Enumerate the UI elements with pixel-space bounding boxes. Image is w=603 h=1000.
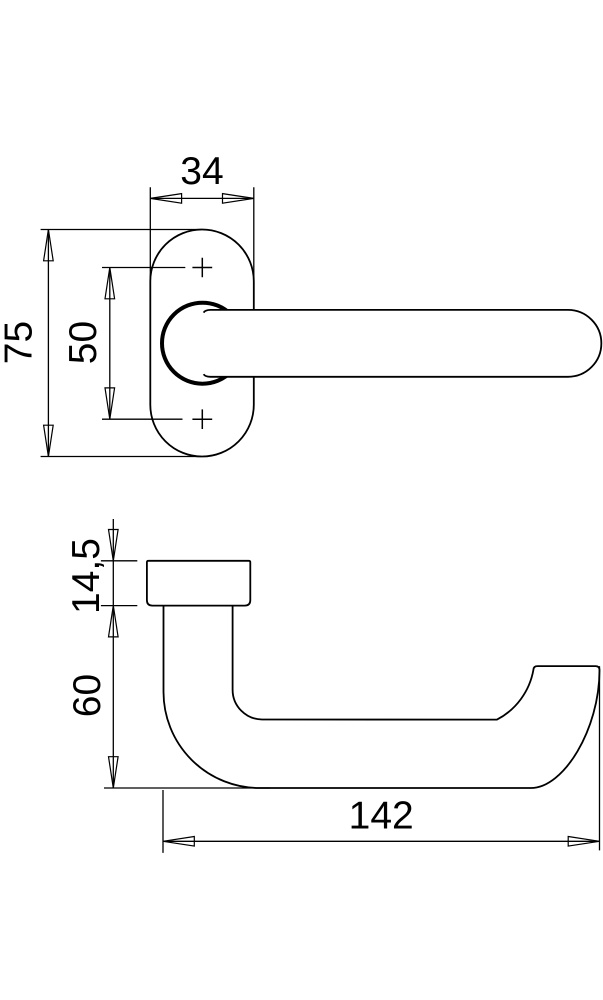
dimension text 142 (349, 794, 414, 837)
dimension line 142 (163, 840, 600, 842)
dimension text 60 (rotated) (66, 674, 109, 717)
dimension text 75 (rotated) (0, 321, 41, 364)
extension lines for dimension 142 (163, 666, 600, 853)
arrowhead 60 bottom (pointing down) (109, 757, 119, 788)
screw hole cross mark bottom (192, 409, 212, 429)
arrowhead 50 top (105, 268, 115, 299)
extension lines for dimension 75 (41, 230, 201, 457)
arrowhead 34 right (223, 194, 254, 204)
screw hole cross mark top (192, 258, 212, 278)
arrowhead 50 bottom (105, 388, 115, 419)
svg-text:75: 75 (0, 321, 41, 364)
svg-text:60: 60 (66, 674, 109, 717)
svg-text:50: 50 (62, 321, 105, 364)
dimension line 14,5 / 60 (shared vertical) (112, 519, 114, 788)
svg-text:34: 34 (180, 150, 223, 193)
dimension line 75 (47, 230, 49, 457)
dimension text 50 (rotated) (62, 321, 105, 364)
dimension line 50 (109, 268, 111, 420)
extension line for dimension 60 bottom (104, 787, 270, 789)
extension lines for dimension 34 (150, 187, 254, 285)
neck collar circle (162, 303, 243, 384)
svg-text:14,5: 14,5 (65, 538, 108, 614)
extension lines for dimension 14,5 (101, 561, 137, 606)
svg-text:142: 142 (349, 794, 414, 837)
rose block (side view) (147, 561, 250, 606)
arrowhead 75 bottom (44, 425, 54, 456)
extension lines for dimension 50 (102, 268, 185, 420)
rose plate oval (top view) (150, 230, 254, 457)
arrowhead 75 top (44, 230, 54, 261)
lever grip (top view, white fill covering circle right side) (204, 310, 602, 377)
lever handle side profile (164, 606, 600, 788)
arrowhead 142 left (163, 837, 194, 847)
dimension text 34 (180, 150, 223, 193)
dimension line 34 (150, 197, 254, 199)
arrowhead 14,5 top (pointing down) (109, 530, 119, 561)
arrowhead 14,5/60 middle (pointing up) (109, 606, 119, 637)
arrowhead 34 left (150, 194, 181, 204)
arrowhead 142 right (568, 837, 599, 847)
dimension text 14,5 (rotated) (65, 538, 108, 614)
